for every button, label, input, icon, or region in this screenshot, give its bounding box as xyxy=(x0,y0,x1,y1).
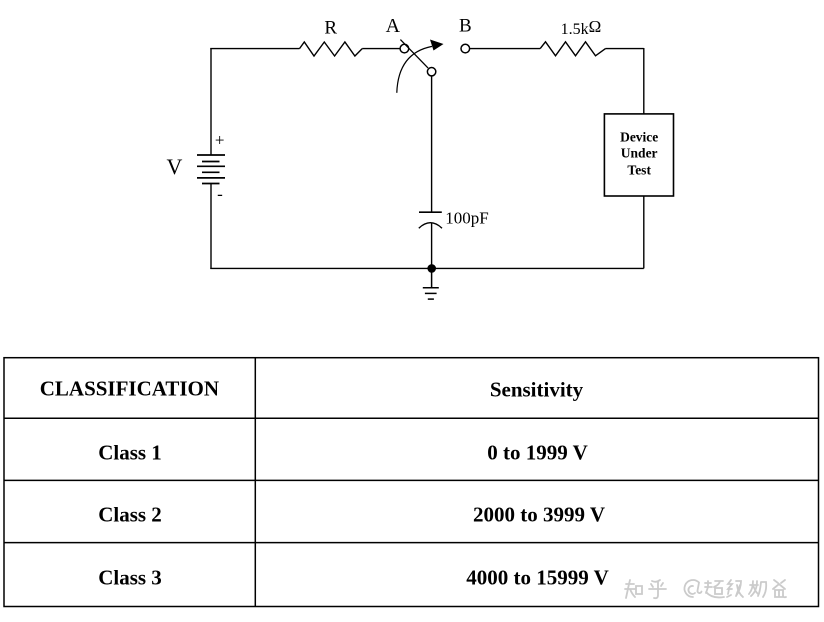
wire: right vertical down to DUT box xyxy=(643,48,645,114)
ground symbol xyxy=(423,268,439,299)
wire: resistor 1.5k to top-right corner xyxy=(606,48,644,50)
device under test box text xyxy=(620,130,658,179)
label node A xyxy=(386,16,400,36)
junction dot at ground node xyxy=(427,264,436,273)
table cell 4000 to 15999 V xyxy=(466,568,609,589)
switch S1 blade xyxy=(400,40,428,69)
table cell Class 1 xyxy=(98,443,162,464)
switch S1 throw arc xyxy=(397,46,432,92)
switch S1 arrowhead xyxy=(430,40,444,51)
table cell Class 3 xyxy=(98,567,162,588)
battery minus polarity mark xyxy=(217,185,223,202)
battery plus polarity mark xyxy=(215,131,225,148)
wire: resistor R to node A xyxy=(362,48,400,50)
wire: capacitor C1 to junction xyxy=(431,224,433,269)
table cell Class 2 xyxy=(98,505,162,526)
wire: battery - down to bottom rail xyxy=(210,184,212,270)
resistor R2 1.5k ohm xyxy=(540,42,605,56)
value label 1.5k ohm xyxy=(561,18,602,38)
label R for resistor xyxy=(324,18,337,37)
wire: left vertical from top rail to battery + xyxy=(210,48,212,155)
voltage source V battery plates xyxy=(197,155,225,184)
table cell 0 to 1999 V xyxy=(487,443,588,464)
watermark zhihu xyxy=(622,576,822,604)
resistor R xyxy=(300,42,363,56)
wire: bottom rail xyxy=(210,267,644,269)
table header Sensitivity xyxy=(490,379,583,400)
wire: switch lower contact down to capacitor C1 xyxy=(431,76,433,212)
node A terminal circle xyxy=(400,44,409,53)
value label 100pF xyxy=(445,210,488,227)
classification table grid xyxy=(4,358,819,607)
capacitor C1 bottom curved plate xyxy=(419,223,442,229)
device under test box U1 xyxy=(604,114,673,196)
wire: top-left horizontal from battery to resistor R xyxy=(210,48,299,50)
switch S1 lower contact circle xyxy=(427,68,435,76)
table header CLASSIFICATION xyxy=(40,378,219,399)
label node B xyxy=(459,17,472,36)
node B terminal circle xyxy=(461,44,470,53)
table cell 2000 to 3999 V xyxy=(473,505,605,526)
label V for voltage source xyxy=(167,156,183,178)
wire: node B to resistor 1.5k xyxy=(470,48,541,50)
capacitor C1 top plate xyxy=(419,211,442,213)
wire: DUT box bottom to bottom rail xyxy=(643,196,645,268)
